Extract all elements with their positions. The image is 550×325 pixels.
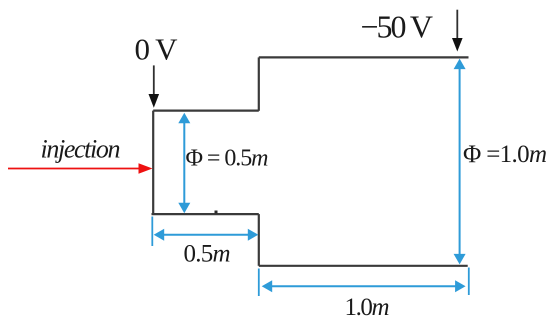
electrode outline: small tube left wall (152, 111, 154, 215)
extension line for 0.5m length dimension (blue) (151, 217, 153, 247)
tiny tick on small tube bottom wall (215, 211, 218, 214)
svg-text:Φ = 0.5m: Φ = 0.5m (186, 146, 269, 172)
arrow to left electrode (0 V pointer) (149, 65, 160, 107)
svg-text:Φ =1.0m: Φ =1.0m (463, 141, 547, 168)
arrow to right electrode (-50 V pointer) (452, 10, 463, 52)
dimension arrow diameter 0.5m (vertical, blue) (178, 113, 190, 214)
electrode outline: step vertical (bottom) (258, 214, 260, 266)
dimension arrow length 1.0m (horizontal, blue) (262, 280, 466, 292)
svg-text:0.5m: 0.5m (184, 241, 231, 268)
electrode outline: step vertical (top) (258, 57, 260, 110)
svg-text:injection: injection (41, 135, 121, 164)
extension line right for 1.0m dimension (blue) (468, 268, 470, 296)
electrode outline: small tube bottom wall (152, 213, 259, 215)
svg-text:0 V: 0 V (135, 32, 179, 67)
injection arrow (red) (8, 163, 153, 173)
electrode outline: large tube bottom wall (259, 265, 468, 267)
dimension arrow diameter 1.0m (vertical, blue) (454, 59, 466, 265)
svg-text:−50 V: −50 V (361, 9, 434, 45)
electrode outline: small tube top wall (153, 109, 259, 111)
extension line left for 1.0m dimension (blue) (258, 269, 260, 297)
dimension arrow length 0.5m (horizontal, blue) (154, 229, 259, 241)
electrode outline: large tube top wall (259, 56, 469, 58)
svg-text:1.0m: 1.0m (345, 294, 390, 321)
